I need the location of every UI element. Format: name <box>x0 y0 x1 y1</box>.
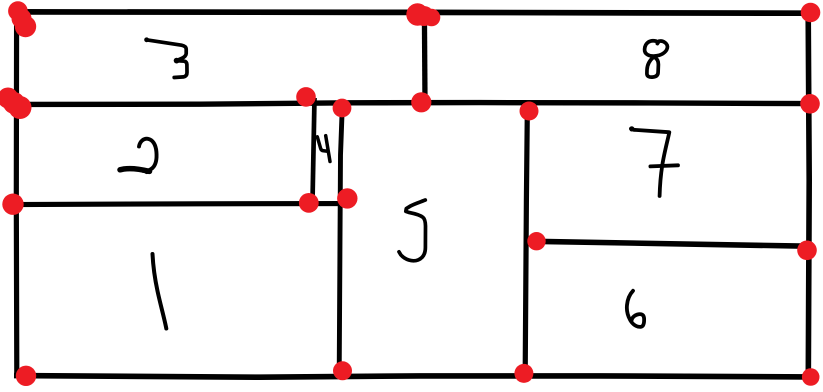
node left middle <box>0 88 32 120</box>
node bottom-left corner <box>16 366 36 386</box>
node bottom of strip 4 right <box>337 188 357 208</box>
wire top border <box>16 12 810 13</box>
node bottom of strip 4 left <box>299 193 319 213</box>
node top-right corner <box>801 3 821 23</box>
wire vertical divider between 3 and 8 <box>422 14 428 101</box>
wire bottom of region 2 <box>13 204 345 205</box>
wire strip 4 left vertical <box>313 98 315 202</box>
digit 3 <box>144 37 187 77</box>
node top of strip 4 right <box>333 99 352 118</box>
node bottom of line 1/5 <box>333 361 352 380</box>
node right end of divider 7/6 <box>797 241 817 261</box>
wire right border <box>808 13 809 377</box>
wire strip 4 right vertical down to bottom <box>339 109 342 373</box>
digit 2 <box>120 139 157 174</box>
wire main horizontal divider <box>12 103 810 105</box>
wire left border <box>14 12 20 376</box>
digit 7 <box>629 126 678 196</box>
digit 8 <box>645 41 668 77</box>
node divider 3/8 meets horizontal <box>411 92 431 112</box>
node bottom of line 5/6 <box>514 364 533 383</box>
digit 5 <box>399 200 426 261</box>
node top of strip 4 left <box>296 87 316 107</box>
wire vertical divider between 5 and 6/7 <box>525 112 527 373</box>
node right end of horizontal divider <box>800 94 820 114</box>
wire bottom border <box>14 376 810 378</box>
digit 4 <box>317 136 330 162</box>
wire divider between 7 and 6 <box>533 241 809 246</box>
node top of divider 5/7 <box>520 102 539 121</box>
digit 1 <box>153 254 167 329</box>
node left end of region2 bottom <box>2 194 23 215</box>
node top-left corner <box>8 1 36 37</box>
digit 6 <box>627 291 644 327</box>
node top of divider 3/8 <box>406 3 440 26</box>
node bottom-right corner <box>802 368 820 386</box>
node left end of divider 7/6 <box>527 232 545 250</box>
